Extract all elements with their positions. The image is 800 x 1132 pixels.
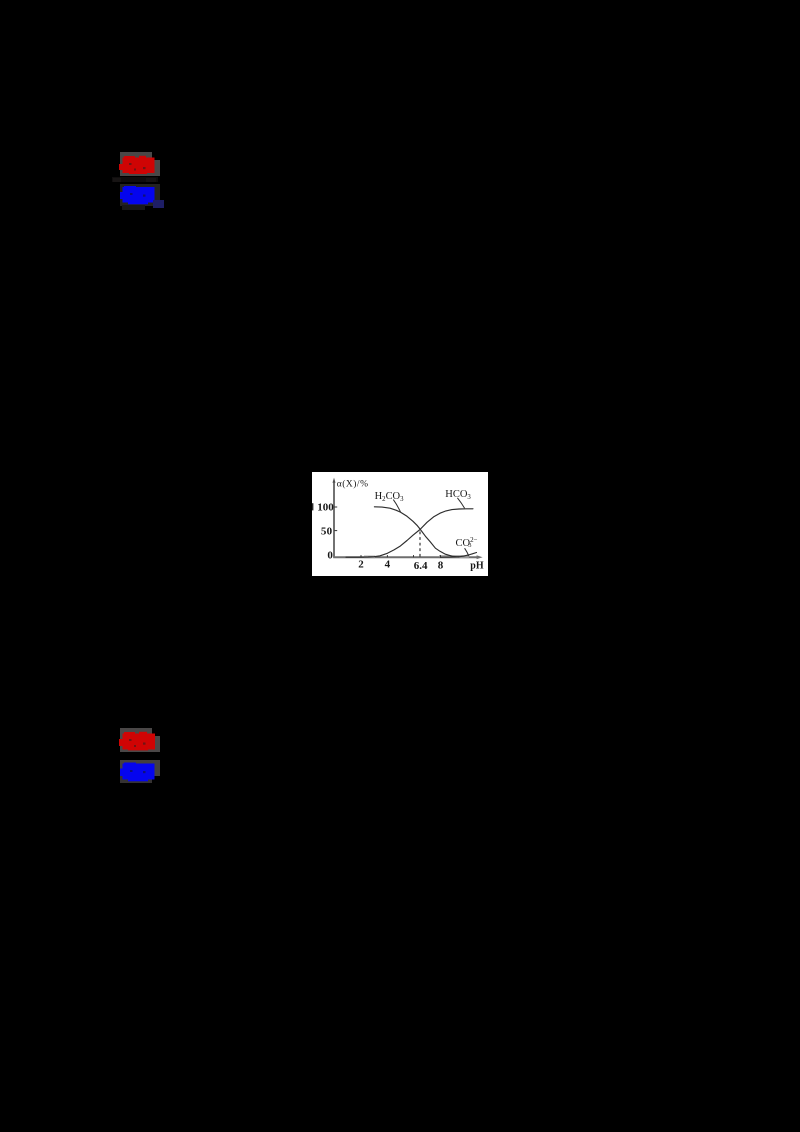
leader HCO3	[457, 498, 464, 508]
svg-text:8: 8	[437, 559, 443, 571]
faint ghost glyphs under answer-1	[112, 177, 158, 183]
navy fragment analysis-1	[153, 200, 164, 209]
leader CO3	[464, 548, 468, 556]
tick x 6	[412, 555, 414, 557]
red label answer-1	[119, 155, 157, 175]
gray axis smudge left	[364, 555, 375, 558]
x-axis	[333, 556, 478, 558]
highlight strip analysis-1 bottom	[122, 205, 145, 210]
gray axis smudge right	[439, 555, 469, 558]
x-axis arrow	[476, 555, 482, 559]
svg-text:pH: pH	[470, 560, 484, 571]
highlight box answer-1	[120, 152, 152, 176]
highlight box analysis-2 bottom	[120, 776, 152, 784]
highlight box answer-1 right extension	[152, 160, 160, 176]
svg-text:50: 50	[321, 525, 333, 537]
y-axis	[333, 481, 335, 557]
curve H2CO3	[374, 507, 459, 557]
y-axis arrow	[332, 477, 335, 482]
svg-text:100: 100	[317, 501, 334, 513]
highlight box answer-2	[120, 728, 152, 752]
white background	[312, 472, 488, 577]
red label answer-2	[119, 731, 157, 751]
svg-text:α(X)/%: α(X)/%	[336, 478, 368, 489]
chart panel	[312, 472, 488, 577]
curve HCO3	[346, 509, 473, 557]
highlight box analysis-1	[120, 184, 160, 206]
highlight box analysis-2	[120, 760, 160, 776]
svg-text:H2CO3: H2CO3	[374, 491, 404, 503]
left-edge fragment near 100	[312, 503, 313, 510]
svg-text:6.4: 6.4	[413, 560, 427, 572]
svg-text:0: 0	[327, 549, 333, 561]
blue label analysis-1	[120, 185, 157, 205]
tick y 100	[334, 506, 337, 508]
tick x 4	[386, 555, 388, 557]
blue label analysis-2	[120, 762, 157, 782]
tick x 8	[439, 555, 441, 557]
curve CO3	[440, 552, 476, 557]
tick x 2	[360, 555, 362, 557]
svg-text:4: 4	[384, 558, 390, 570]
svg-text:2: 2	[358, 558, 364, 570]
leader H2CO3	[393, 499, 400, 512]
dashed line at pH 6.4	[419, 531, 421, 556]
tick y 50	[334, 529, 337, 531]
highlight box answer-2 right extension	[152, 736, 160, 752]
